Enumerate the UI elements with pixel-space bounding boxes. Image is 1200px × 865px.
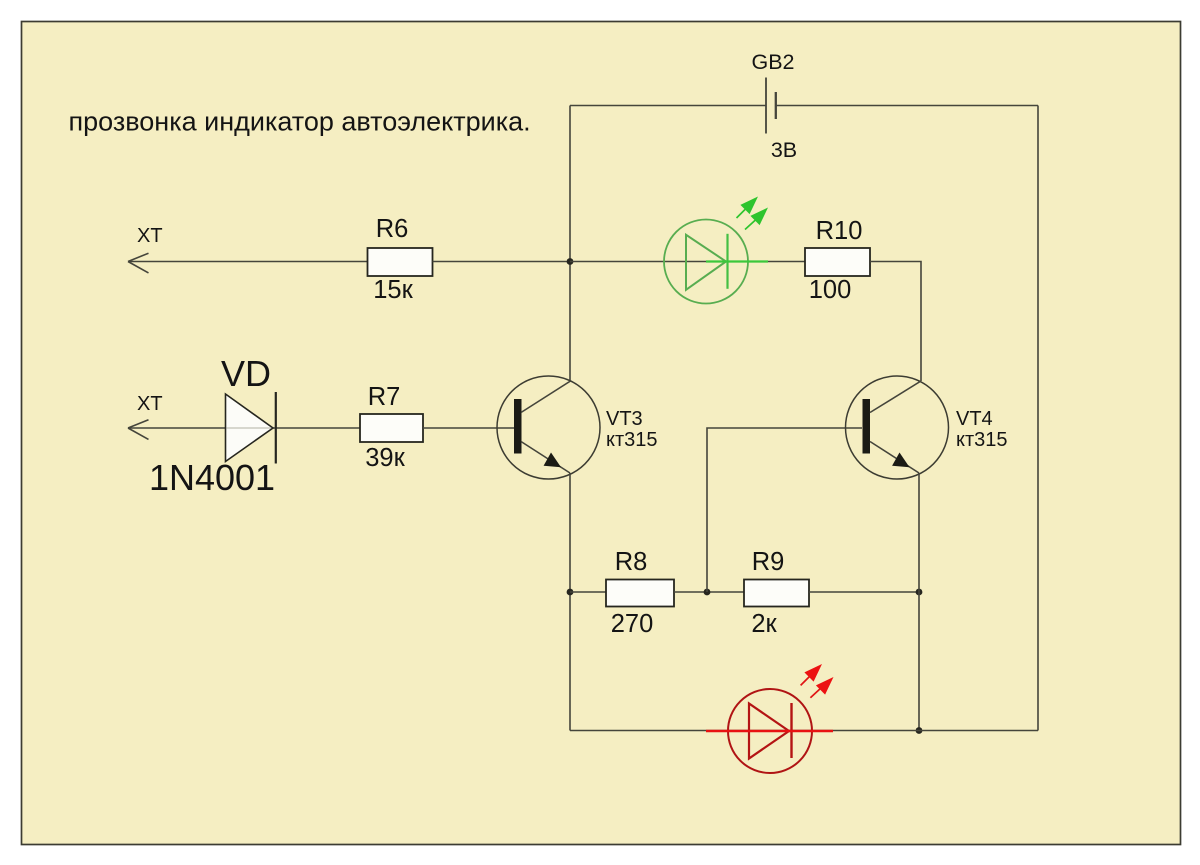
svg-text:100: 100 [809, 276, 852, 304]
red LED arrow 2 [810, 688, 821, 698]
svg-text:кт315: кт315 [606, 429, 658, 451]
green LED arrow 2 [745, 220, 756, 230]
svg-text:кт315: кт315 [956, 429, 1008, 451]
svg-text:R7: R7 [368, 383, 401, 411]
wire: right vertical from top rail to bottom rail [1037, 106, 1039, 731]
svg-text:прозвонка индикатор автоэлектр: прозвонка индикатор автоэлектрика. [69, 107, 531, 137]
wire: node B to R8 [570, 591, 606, 593]
LED HL red [706, 664, 834, 773]
terminal XT1 arrow [128, 253, 149, 273]
svg-text:VD: VD [221, 353, 271, 394]
node B junction (emitter / R8) [567, 589, 574, 596]
svg-text:R9: R9 [752, 548, 785, 576]
wire: left vertical from top rail to VT3 collector [569, 106, 571, 382]
wire: R8 to node C [674, 591, 744, 593]
svg-text:270: 270 [611, 610, 654, 638]
terminal XT2 arrow [128, 420, 149, 440]
resistor R8 [606, 580, 674, 607]
wire: R10 to VT4 collector [870, 262, 921, 382]
battery GB2 [766, 78, 776, 134]
red LED arrow 1 [801, 676, 810, 685]
wire: XT1 to R6 [128, 261, 367, 263]
wire: VT4 emitter to bottom rail [918, 473, 920, 731]
wire: top supply rail (battery row) [570, 105, 1038, 107]
svg-text:39к: 39к [365, 444, 405, 472]
svg-text:R6: R6 [376, 215, 409, 243]
node E junction (bottom rail / VT4 emitter) [916, 727, 923, 734]
diode VD [226, 392, 276, 464]
LED HL green [664, 197, 768, 304]
svg-text:GB2: GB2 [751, 50, 794, 74]
resistor R7 [360, 414, 423, 442]
wire: R6 to node A [433, 261, 571, 263]
svg-text:2к: 2к [751, 610, 777, 638]
resistor R9 [744, 580, 809, 607]
node A junction [567, 258, 574, 265]
transistor VT4 [846, 376, 949, 479]
resistor R10 [805, 248, 870, 276]
svg-text:R10: R10 [816, 217, 863, 245]
svg-text:VT4: VT4 [956, 408, 993, 430]
node C junction (R8/R9/VT4 base) [704, 589, 711, 596]
transistor VT3 [497, 376, 600, 479]
wire: R9 to VT4 emitter line [809, 591, 919, 593]
node D junction (R9 / VT4 emitter) [916, 589, 923, 596]
resistor R6 [368, 248, 433, 276]
svg-text:ХТ: ХТ [137, 393, 163, 415]
wire: XT2 to R7 through diode VD [128, 427, 360, 429]
green LED arrow 1 [737, 209, 747, 219]
svg-text:ХТ: ХТ [137, 225, 163, 247]
wire: node C to VT4 base [707, 428, 862, 592]
wire: node A to R10 through green LED [570, 261, 805, 263]
wire: bottom rail through red LED [570, 730, 1038, 732]
svg-text:VT3: VT3 [606, 408, 643, 430]
svg-text:3В: 3В [771, 138, 797, 162]
svg-text:15к: 15к [373, 276, 413, 304]
wire: VT3 emitter to bottom rail [569, 473, 571, 731]
svg-text:1N4001: 1N4001 [149, 457, 275, 498]
wire: R7 to VT3 base [423, 427, 517, 429]
svg-text:R8: R8 [615, 548, 648, 576]
